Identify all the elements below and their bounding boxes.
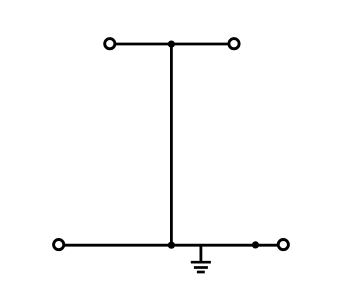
junction top bbox=[168, 41, 175, 48]
wire vertical bbox=[170, 44, 173, 245]
ground bbox=[191, 262, 211, 272]
ground stub bbox=[199, 245, 202, 262]
wire top rail bbox=[110, 43, 234, 46]
wire bottom rail bbox=[59, 244, 284, 247]
terminal top-right bbox=[229, 39, 239, 49]
terminal bottom-left bbox=[54, 240, 64, 250]
terminal top-left bbox=[105, 39, 115, 49]
terminal bottom-right bbox=[278, 240, 288, 250]
junction bottom bbox=[168, 242, 175, 249]
junction right bbox=[252, 241, 259, 248]
